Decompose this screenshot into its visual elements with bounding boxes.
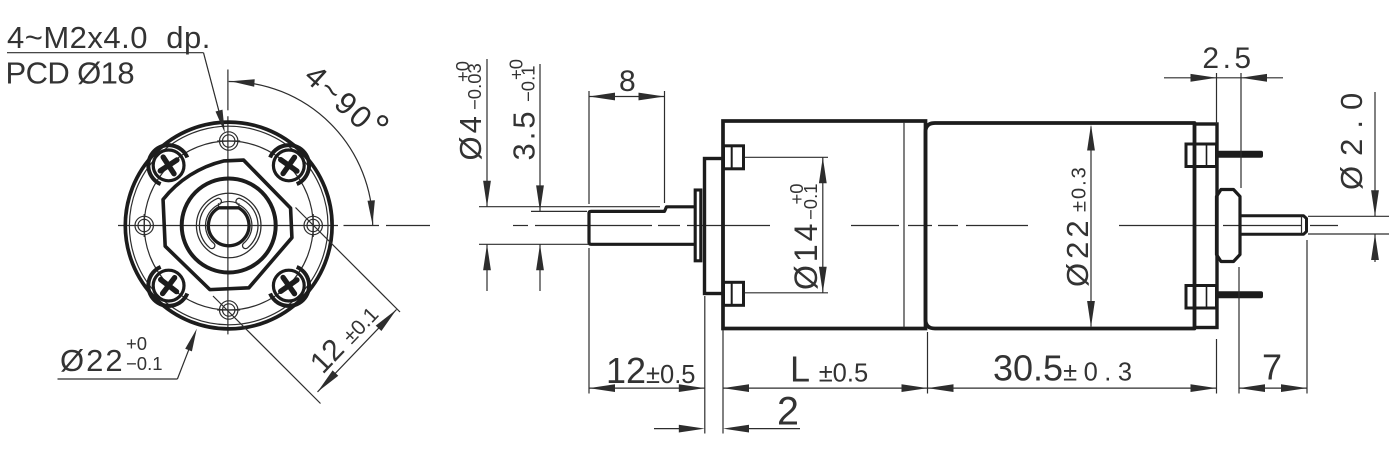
svg-text:2: 2: [777, 390, 799, 434]
svg-text:Ø2.0: Ø2.0: [1334, 83, 1369, 190]
svg-text:3.5: 3.5: [507, 108, 542, 160]
svg-text:8: 8: [619, 65, 636, 98]
svg-text:−0.1: −0.1: [518, 65, 539, 102]
svg-text:±0.3: ±0.3: [1069, 165, 1091, 212]
svg-text:−0.1: −0.1: [800, 183, 821, 220]
svg-text:PCD Ø18: PCD Ø18: [6, 56, 134, 91]
svg-text:7: 7: [1262, 347, 1282, 388]
svg-text:4~M2x4.0 dp.: 4~M2x4.0 dp.: [7, 20, 211, 55]
svg-text:Ø22: Ø22: [1060, 216, 1095, 287]
svg-text:Ø22: Ø22: [60, 343, 125, 378]
svg-text:2.5: 2.5: [1202, 42, 1254, 75]
svg-text:Ø4: Ø4: [453, 113, 488, 160]
svg-text:−0.1: −0.1: [126, 353, 163, 374]
svg-text:−0.03: −0.03: [464, 63, 485, 110]
svg-text:+0: +0: [126, 333, 147, 354]
svg-text:Ø14: Ø14: [788, 221, 824, 290]
